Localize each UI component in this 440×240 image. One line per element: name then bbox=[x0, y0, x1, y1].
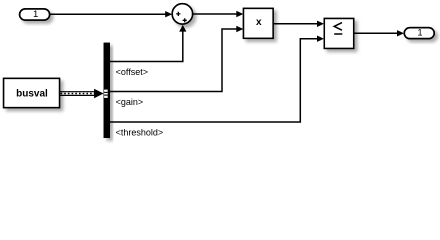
sum block (circle) bbox=[172, 4, 192, 24]
inport block 1 (oval) bbox=[20, 9, 50, 20]
wire Product to Relational bbox=[273, 21, 324, 27]
svg-text:busval: busval bbox=[16, 89, 48, 100]
svg-text:<threshold>: <threshold> bbox=[116, 127, 164, 137]
svg-text:x: x bbox=[256, 17, 262, 28]
wire offset to Sum bottom input bbox=[110, 25, 186, 62]
svg-text:1: 1 bbox=[33, 9, 38, 20]
svg-text:1: 1 bbox=[417, 28, 422, 38]
svg-text:<offset>: <offset> bbox=[116, 67, 148, 77]
wire In1 to Sum bbox=[50, 11, 173, 17]
bus selector bar bbox=[104, 43, 110, 138]
wire Sum to Product bbox=[193, 11, 244, 17]
bus wire busval to Bus Selector bbox=[60, 89, 104, 98]
product block x bbox=[244, 8, 274, 38]
wire Relational to Out1 bbox=[354, 30, 404, 36]
outport block 1 (oval) bbox=[404, 28, 434, 39]
wire gain to Product input 2 bbox=[110, 26, 243, 92]
wire threshold to Relational input 2 bbox=[110, 36, 324, 123]
bus selector input port icon bbox=[104, 90, 108, 98]
busval block bbox=[4, 78, 60, 107]
svg-text:<gain>: <gain> bbox=[116, 97, 144, 107]
relational operator block &#8804; bbox=[324, 19, 353, 49]
